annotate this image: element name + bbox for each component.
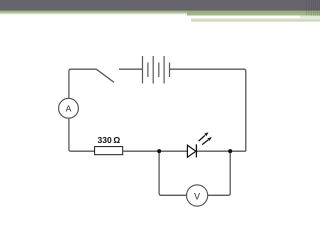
ammeter A1 <box>59 98 79 118</box>
wire LED to bottom-right corner <box>196 150 245 152</box>
wire switch to battery <box>119 68 143 70</box>
wire battery to top-right corner and right vertical <box>170 69 246 151</box>
node J2 <box>228 149 232 153</box>
battery B1 (three cells) <box>143 56 170 84</box>
LED D1 <box>187 132 212 157</box>
voltmeter branch wire <box>159 151 230 195</box>
wire resistor to LED <box>123 150 188 152</box>
node J1 <box>157 149 161 153</box>
voltmeter V1 <box>187 185 208 206</box>
wire left loop: top-left corner, left vertical, bottom-left corner <box>69 69 97 151</box>
switch S1 (open blade) <box>96 69 114 82</box>
svg-text:V: V <box>194 191 200 201</box>
svg-text:A: A <box>66 104 72 114</box>
resistor R1 <box>95 147 123 155</box>
svg-text:330 Ω: 330 Ω <box>98 135 121 145</box>
